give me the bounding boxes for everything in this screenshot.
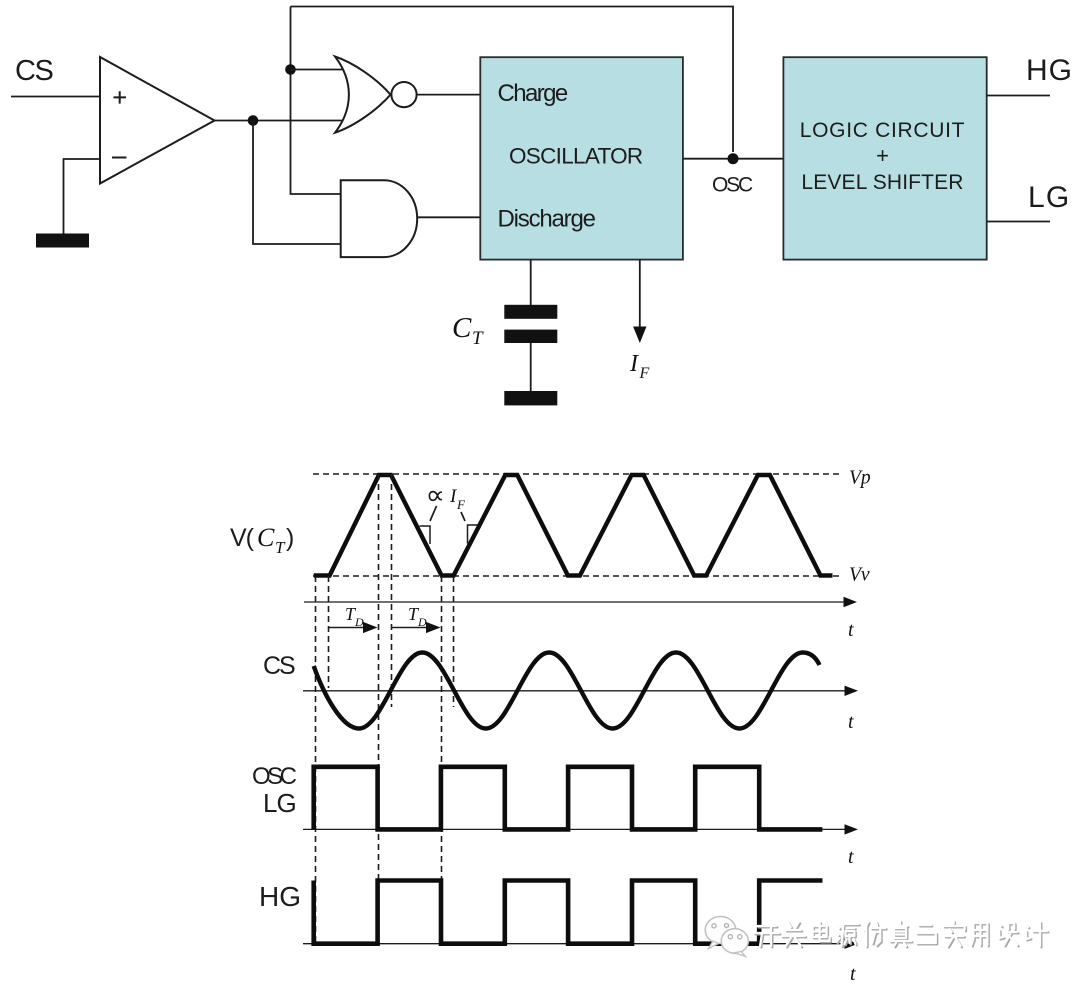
svg-text:C: C xyxy=(452,312,472,344)
leader line to rising marker xyxy=(461,512,465,521)
watermark text kaiguandianyuan fangzhen yu shiyong sheji xyxy=(754,921,1048,947)
label t axis 2 xyxy=(848,711,854,733)
waveform CS sine xyxy=(314,653,820,729)
wire CT to ground xyxy=(530,343,532,391)
label t axis 3 xyxy=(848,846,854,868)
svg-text:OSCILLATOR: OSCILLATOR xyxy=(509,144,643,169)
label node OSC xyxy=(712,174,753,197)
svg-text:t: t xyxy=(850,963,856,985)
dashed guide x1 xyxy=(315,576,317,944)
svg-text:T: T xyxy=(472,328,484,349)
wire feedback left vertical to AND upper input xyxy=(291,7,342,195)
leader line to falling marker xyxy=(430,506,437,521)
axis t for CS xyxy=(303,686,858,696)
dashed guide x2b xyxy=(391,474,393,707)
wire AND output to Discharge xyxy=(417,216,481,218)
label HG output xyxy=(1026,54,1073,87)
svg-text:HG: HG xyxy=(259,881,301,912)
label CS waveform xyxy=(263,652,295,680)
label CS input xyxy=(15,55,53,87)
node junction feedback / NOR input xyxy=(285,64,296,75)
waveform OSC LG square xyxy=(314,767,823,830)
wire LG output xyxy=(987,221,1050,223)
label CT value xyxy=(452,312,484,349)
svg-text:CS: CS xyxy=(15,55,53,87)
waveform HG square xyxy=(314,881,823,944)
axis t for V(CT) xyxy=(304,597,857,607)
svg-text:Discharge: Discharge xyxy=(498,206,596,233)
node OSC xyxy=(728,153,739,164)
wire to AND lower input xyxy=(253,121,341,245)
svg-text:Vv: Vv xyxy=(849,565,870,586)
label LG waveform xyxy=(263,788,296,818)
wire oscillator to CT xyxy=(530,260,532,305)
node junction comparator output xyxy=(248,115,259,126)
ground CT xyxy=(504,391,557,405)
watermark logo wechat bubbles xyxy=(705,917,748,957)
svg-text:OSC: OSC xyxy=(252,763,297,790)
wire NOR upper input xyxy=(291,69,349,71)
slope marker rising edge xyxy=(468,525,478,544)
delay arrow TD1 xyxy=(329,604,378,633)
label proportional IF xyxy=(429,486,466,512)
dashed level Vv xyxy=(313,575,840,577)
axis t for HG xyxy=(303,939,858,949)
svg-text:CS: CS xyxy=(263,652,295,680)
wire oscillator output xyxy=(683,158,784,160)
logic block U2 xyxy=(783,57,986,259)
svg-text:F: F xyxy=(639,365,650,382)
label t axis 4 xyxy=(850,963,856,985)
svg-text:I: I xyxy=(629,351,639,377)
wire inverting input xyxy=(64,159,101,234)
wire feedback from OSC (top run) xyxy=(291,7,734,153)
op-amp comparator U1 xyxy=(100,57,215,184)
svg-text:HG: HG xyxy=(1026,54,1073,87)
delay arrow TD2 xyxy=(392,604,441,633)
label OSC waveform xyxy=(252,763,297,790)
wire HG output xyxy=(987,95,1050,97)
label IF xyxy=(629,351,650,382)
label V(CT) xyxy=(230,523,294,557)
NOR gate G1 xyxy=(335,57,417,133)
svg-text:t: t xyxy=(848,711,854,733)
svg-text:LG: LG xyxy=(263,788,296,818)
label t axis 1 xyxy=(848,619,854,641)
wire comparator output xyxy=(215,120,349,122)
svg-text:OSC: OSC xyxy=(712,174,753,197)
svg-text:LEVEL SHIFTER: LEVEL SHIFTER xyxy=(801,171,963,194)
svg-text:+: + xyxy=(876,143,889,168)
svg-text:t: t xyxy=(848,846,854,868)
svg-text:Vp: Vp xyxy=(849,468,871,489)
dashed guide x2 xyxy=(378,474,380,944)
waveform V(CT) triangle xyxy=(314,475,833,576)
label Vv xyxy=(849,565,870,586)
label HG waveform xyxy=(259,881,301,912)
wire CS input xyxy=(11,96,100,98)
oscillator block xyxy=(480,57,683,259)
label Vp xyxy=(849,468,871,489)
svg-text:D: D xyxy=(354,615,364,629)
svg-text:Charge: Charge xyxy=(498,80,568,107)
dashed level Vp xyxy=(313,473,840,475)
capacitor CT xyxy=(504,305,557,343)
dashed guide x3 xyxy=(441,576,443,944)
wire NOR output to Charge xyxy=(417,94,481,96)
svg-text:LOGIC CIRCUIT: LOGIC CIRCUIT xyxy=(800,119,965,142)
svg-text:V(: V( xyxy=(230,524,255,552)
svg-text:D: D xyxy=(417,615,427,629)
svg-text:LG: LG xyxy=(1028,181,1070,214)
svg-text:C: C xyxy=(257,523,275,552)
slope marker falling edge xyxy=(420,526,431,544)
dashed guide x3b xyxy=(453,576,455,707)
ground xyxy=(36,234,89,248)
svg-text:T: T xyxy=(275,538,286,557)
axis t for OSC LG xyxy=(303,824,858,834)
svg-text:t: t xyxy=(848,619,854,641)
dashed guide x1b xyxy=(328,576,330,688)
current IF arrow xyxy=(633,260,646,343)
label LG output xyxy=(1028,181,1070,214)
svg-text:F: F xyxy=(456,497,466,512)
svg-text:): ) xyxy=(286,524,294,552)
AND gate G2 xyxy=(341,180,418,257)
